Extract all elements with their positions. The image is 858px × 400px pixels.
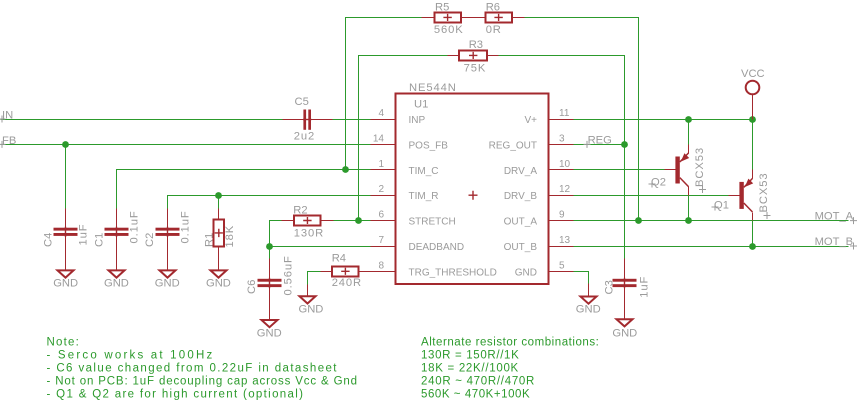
pin 12 DRV_B <box>504 184 574 202</box>
svg-text:DRV_B: DRV_B <box>504 191 537 202</box>
svg-text:DEADBAND: DEADBAND <box>409 242 465 253</box>
svg-text:GND: GND <box>53 277 78 289</box>
svg-text:C2: C2 <box>144 233 156 247</box>
svg-text:75K: 75K <box>464 63 487 75</box>
svg-text:GND: GND <box>576 304 601 316</box>
wire red segment between R5 and R6 <box>461 17 486 19</box>
pin 8 TRG_THRESHOLD <box>371 260 497 278</box>
node IN label <box>0 110 13 123</box>
wire R1 vertical stub <box>218 196 220 209</box>
wire DRV_A net to Q2 base <box>574 169 665 171</box>
svg-text:FB: FB <box>2 135 16 147</box>
pin 5 GND <box>515 260 574 278</box>
svg-text:VCC: VCC <box>741 68 765 80</box>
junction STRETCH / R3 <box>355 217 362 224</box>
svg-text:18K = 22K//100K: 18K = 22K//100K <box>421 363 519 375</box>
svg-text:0.1uF: 0.1uF <box>180 210 192 243</box>
svg-text:6: 6 <box>378 210 384 221</box>
svg-text:18K: 18K <box>224 225 236 248</box>
svg-text:GND: GND <box>155 277 180 289</box>
note text block left <box>47 337 358 400</box>
svg-text:NE544N: NE544N <box>409 82 457 94</box>
junction TIM_C / R5R6 feedback <box>342 166 349 173</box>
wire R3 net: right corner down to REG and C3 <box>499 56 625 145</box>
ground GND (C6) <box>257 320 282 340</box>
resistor R1 <box>204 209 237 271</box>
wire TRG net: R4 left corner down to ground <box>308 272 321 285</box>
svg-text:C4: C4 <box>43 233 55 247</box>
wire Q1 collector vertical <box>752 120 754 170</box>
svg-text:R4: R4 <box>332 253 346 265</box>
resistor R4 <box>321 253 371 289</box>
wire Q2 collector vertical <box>688 120 690 145</box>
wire R5R6 net: top left corner down to TIM_C <box>346 18 422 170</box>
svg-text:STRETCH: STRETCH <box>409 217 456 228</box>
svg-text:11: 11 <box>559 108 570 119</box>
svg-text:GND: GND <box>104 277 129 289</box>
svg-text:R3: R3 <box>469 39 483 51</box>
wire OUT_B / MOT_B net horizontal <box>574 246 849 248</box>
svg-text:OUT_A: OUT_A <box>504 217 538 228</box>
ground GND (C3) <box>612 319 637 339</box>
svg-text:V+: V+ <box>524 115 537 126</box>
capacitor C2 <box>144 209 191 271</box>
svg-text:C1: C1 <box>93 233 105 247</box>
svg-text:0.56uF: 0.56uF <box>282 255 294 295</box>
pin 2 TIM_R <box>371 184 439 202</box>
wire IN net horizontal <box>1 119 371 121</box>
svg-text:7: 7 <box>378 235 384 246</box>
svg-text:9: 9 <box>559 210 565 221</box>
pin 6 STRETCH <box>371 210 456 228</box>
power VCC symbol <box>741 68 765 120</box>
svg-text:TRG_THRESHOLD: TRG_THRESHOLD <box>409 267 497 278</box>
junction TIM_R / R1 <box>215 192 222 199</box>
svg-text:130R: 130R <box>294 228 324 240</box>
svg-text:- Not on PCB: 1uF decoupling c: - Not on PCB: 1uF decoupling cap across … <box>47 376 358 388</box>
svg-text:OUT_B: OUT_B <box>504 242 538 253</box>
pin 14 POS_FB <box>371 133 449 151</box>
svg-text:REG_OUT: REG_OUT <box>489 140 537 151</box>
svg-text:REG: REG <box>588 135 612 147</box>
capacitor C5 <box>283 96 333 142</box>
pin 3 REG_OUT <box>489 133 574 151</box>
junction OUT_A / R5R6 <box>635 217 642 224</box>
svg-text:13: 13 <box>559 235 571 246</box>
svg-text:R6: R6 <box>486 2 500 14</box>
svg-text:2u2: 2u2 <box>294 131 315 143</box>
svg-text:U1: U1 <box>414 99 428 111</box>
svg-text:14: 14 <box>373 133 385 144</box>
resistor R6 <box>485 2 524 37</box>
junction REG / R3 / C3 <box>621 141 628 148</box>
svg-text:1: 1 <box>378 159 384 170</box>
node MOT_A label <box>815 211 857 225</box>
wire DEADBAND net horizontal <box>270 246 371 248</box>
svg-text:Note:: Note: <box>47 337 81 349</box>
capacitor C1 <box>93 209 140 271</box>
ground GND (R4) <box>299 285 324 316</box>
svg-text:TIM_R: TIM_R <box>409 191 439 202</box>
note text block right: alternate resistor combinations <box>421 337 599 400</box>
ground GND (pin 5) <box>576 284 601 316</box>
svg-text:3: 3 <box>559 133 565 144</box>
svg-text:12: 12 <box>559 184 571 195</box>
svg-text:GND: GND <box>206 277 231 289</box>
resistor R2 <box>282 205 334 240</box>
svg-text:- Serco works at 100Hz: - Serco works at 100Hz <box>47 350 215 362</box>
wire STRETCH net: R2 left corner down to DEADBAND junction <box>270 221 282 247</box>
svg-text:- C6 value changed from 0.22uF: - C6 value changed from 0.22uF in datash… <box>47 363 338 375</box>
svg-text:2: 2 <box>378 184 384 195</box>
resistor R3 <box>448 39 499 75</box>
svg-text:5: 5 <box>559 260 565 271</box>
resistor R5 <box>422 2 464 37</box>
wire REG vertical to C3 <box>624 145 626 259</box>
wire REG net horizontal <box>574 144 625 146</box>
svg-text:C6: C6 <box>246 280 258 294</box>
pin 1 TIM_C <box>371 159 439 177</box>
pin 9 OUT_A <box>504 210 574 228</box>
svg-text:DRV_A: DRV_A <box>504 166 537 177</box>
ground GND (C4) <box>53 270 78 289</box>
node REG label <box>584 135 612 148</box>
svg-text:1uF: 1uF <box>639 276 651 298</box>
pin 7 DEADBAND <box>371 235 465 253</box>
svg-text:GND: GND <box>515 267 537 278</box>
ground GND (C2) <box>155 270 180 289</box>
svg-text:240R ~ 470R//470R: 240R ~ 470R//470R <box>421 376 535 388</box>
junction V+ / VCC / Q1 collector <box>749 116 756 123</box>
capacitor C3 <box>604 259 651 320</box>
svg-text:- Q1 & Q2 are for high current: - Q1 & Q2 are for high current (optional… <box>47 389 305 400</box>
junction OUT_B / Q1 emitter <box>749 243 756 250</box>
svg-text:R5: R5 <box>435 2 449 14</box>
svg-text:8: 8 <box>378 260 384 271</box>
pin 11 V+ <box>524 108 573 126</box>
wire TIM_C net horizontal with corner at C1 <box>117 170 371 209</box>
junction V+ / Q2 collector <box>685 116 692 123</box>
svg-text:0R: 0R <box>486 24 502 36</box>
transistor Q1 BCX53 <box>712 170 771 221</box>
node FB label <box>0 135 16 148</box>
svg-text:IN: IN <box>2 110 13 122</box>
svg-text:R2: R2 <box>293 205 307 217</box>
ground GND (C1) <box>104 270 129 289</box>
svg-text:GND: GND <box>257 328 282 340</box>
pin 10 DRV_A <box>504 159 574 177</box>
wire STRETCH net: R2 right to pin <box>334 220 371 222</box>
capacitor C4 <box>43 209 90 271</box>
svg-text:130R = 150R//1K: 130R = 150R//1K <box>421 350 519 362</box>
junction OUT_A / Q2 emitter <box>685 217 692 224</box>
wire FB net horizontal <box>1 144 371 146</box>
ground GND (R1) <box>206 270 231 289</box>
wire R3 net: left corner down to STRETCH <box>359 56 448 221</box>
wire Q1 emitter vertical <box>752 221 754 247</box>
svg-text:0.1uF: 0.1uF <box>129 210 141 243</box>
svg-text:10: 10 <box>559 159 571 170</box>
svg-text:POS_FB: POS_FB <box>409 140 449 151</box>
svg-text:560K: 560K <box>434 24 464 36</box>
wire C4 vertical <box>65 145 67 209</box>
svg-text:Alternate resistor combination: Alternate resistor combinations: <box>421 337 599 349</box>
wire TIM_R net horizontal with corner at C2 <box>168 196 371 209</box>
svg-text:C3: C3 <box>604 280 616 294</box>
wire GND pin 5 corner down <box>574 272 589 284</box>
wire Q2 emitter vertical <box>688 196 690 221</box>
capacitor C6 <box>246 255 294 320</box>
svg-text:4: 4 <box>378 108 384 119</box>
transistor Q2 BCX53 <box>649 145 707 196</box>
wire R5R6 net: right corner down to OUT_A <box>525 18 639 221</box>
svg-text:1uF: 1uF <box>78 224 90 246</box>
svg-text:C5: C5 <box>295 96 309 108</box>
wire OUT_A / MOT_A net horizontal <box>574 220 849 222</box>
pin 4 INP <box>371 108 426 126</box>
wire V+ net horizontal <box>574 119 753 121</box>
svg-text:BCX53: BCX53 <box>758 173 770 213</box>
svg-text:R1: R1 <box>204 233 216 247</box>
svg-text:240R: 240R <box>332 277 362 289</box>
pin 13 OUT_B <box>504 235 574 253</box>
wire C6 vertical <box>269 247 271 259</box>
svg-text:BCX53: BCX53 <box>694 147 706 187</box>
svg-text:MOT_A: MOT_A <box>815 211 854 223</box>
wire DRV_B net to Q1 base <box>574 195 729 197</box>
svg-text:GND: GND <box>299 303 324 315</box>
svg-text:Q2: Q2 <box>651 177 666 189</box>
junction FB/C4 <box>62 141 69 148</box>
junction DEADBAND / C6 <box>266 243 273 250</box>
svg-text:MOT_B: MOT_B <box>815 236 854 248</box>
svg-text:560K ~ 470K+100K: 560K ~ 470K+100K <box>421 389 530 400</box>
svg-text:TIM_C: TIM_C <box>409 166 439 177</box>
node MOT_B label <box>815 236 857 250</box>
op-amp U1 NE544N box <box>396 82 549 284</box>
svg-text:Q1: Q1 <box>714 200 729 212</box>
svg-text:INP: INP <box>409 115 426 126</box>
svg-text:GND: GND <box>612 328 637 340</box>
